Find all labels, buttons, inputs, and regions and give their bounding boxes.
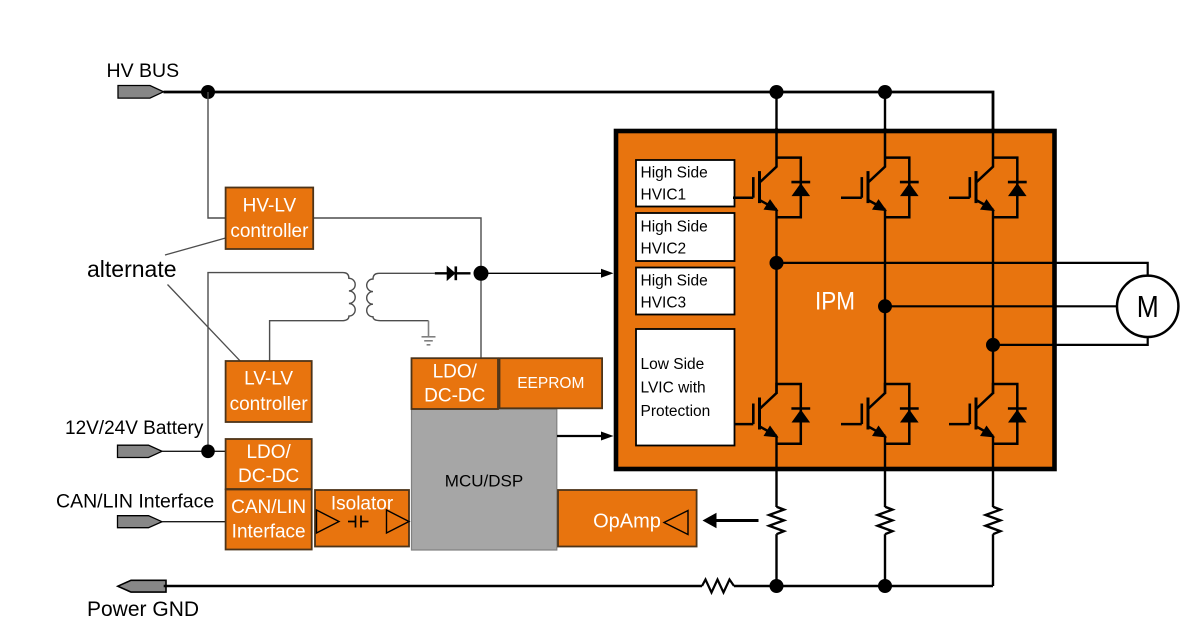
transistor Q2 IGBT [841,128,887,211]
wire bus drop to phase V IGBT [884,92,886,168]
block LDO/DC-DC logic side [412,358,499,409]
block High Side HVIC3 [636,268,735,315]
svg-text:Power GND: Power GND [87,598,199,621]
wire phase W emitter down to shunt [992,436,994,507]
wire shunt R3 to ground bus [992,534,994,586]
diode D6 freewheel [993,384,1027,444]
block EEPROM [500,358,603,408]
svg-text:OpAmp: OpAmp [593,511,661,533]
svg-text:HV BUS: HV BUS [107,60,180,82]
junction node rectified DC [474,266,489,281]
resistor R2 shunt [878,507,893,534]
wire phase W midpoint vertical [992,209,994,394]
svg-text:HVIC3: HVIC3 [641,294,687,311]
wire bus drop to phase U IGBT [775,92,777,168]
wire battery input to LDO/DC-DC [162,450,226,452]
transistor Q1 IGBT [733,128,779,211]
junction node ground shunt U [770,579,784,593]
wire battery riser to transformer primary [208,273,343,452]
wire HV BUS top rail [164,92,994,167]
wire arrow MCU to IPM [557,435,601,437]
wire ground bus [164,585,702,588]
wire phase V midpoint vertical [884,209,886,394]
svg-text:DC-DC: DC-DC [424,386,485,407]
block LV-LV controller [226,361,312,422]
svg-text:Low Side: Low Side [641,356,705,373]
wire phase U output to motor [777,263,1148,275]
svg-text:EEPROM: EEPROM [517,375,584,392]
opamp triangle symbol [664,511,688,535]
junction node on HV BUS at x=208 [201,85,215,99]
svg-text:DC-DC: DC-DC [238,466,299,487]
svg-text:CAN/LIN: CAN/LIN [231,497,306,518]
junction node ground shunt V [878,579,892,593]
callout line alternate to LV-LV controller [168,285,241,361]
wire phase U emitter down to shunt [775,436,777,507]
block Isolator [315,490,409,547]
transformer T1 secondary winding [367,273,435,320]
svg-text:MCU/DSP: MCU/DSP [445,472,523,491]
transformer T1 primary winding [270,273,356,361]
svg-text:High Side: High Side [641,218,708,235]
svg-text:HV-LV: HV-LV [243,195,297,216]
junction node HV BUS phase V [878,85,892,99]
svg-text:High Side: High Side [641,272,708,289]
svg-text:alternate: alternate [87,256,177,282]
block LDO/DC-DC battery side [226,439,312,489]
diode D4 freewheel [777,384,811,444]
diode D2 freewheel [885,158,919,218]
diode D7 rectifier [435,266,471,280]
diode D1 freewheel [777,158,811,218]
transistor Q3 IGBT [949,128,995,211]
wire shunt R2 to ground bus [884,534,886,586]
wire phase W output to motor [993,337,1148,345]
svg-text:controller: controller [230,394,309,415]
output terminal arrow Power GND [118,580,166,592]
svg-text:Interface: Interface [232,522,306,543]
svg-text:LDO/: LDO/ [246,442,291,463]
diode D5 freewheel [885,384,919,444]
wire arrow from DC node into IPM gate supply [481,272,601,274]
wire phase U midpoint vertical [775,209,777,394]
junction node phase W [986,338,1000,352]
diode D3 freewheel [993,158,1027,218]
wire ground bus right section [734,585,993,588]
svg-text:M: M [1137,289,1159,324]
junction node phase V [878,299,892,313]
transistor Q4 IGBT [734,383,779,438]
isolator capacitive barrier symbol [348,516,369,528]
block OpAmp [558,490,697,547]
svg-text:High Side: High Side [641,165,708,182]
svg-text:CAN/LIN Interface: CAN/LIN Interface [56,491,214,513]
junction node phase U [770,256,784,270]
block Low Side LVIC with Protection [636,329,735,446]
block CAN/LIN Interface [226,490,312,550]
isolator buffer triangle right [387,510,410,533]
transistor Q5 IGBT [841,383,887,438]
block High Side HVIC1 [636,160,735,207]
svg-text:controller: controller [230,221,309,242]
input terminal arrow CAN/LIN [118,516,163,528]
svg-text:HVIC1: HVIC1 [641,187,687,204]
svg-text:IPM: IPM [815,288,855,316]
wire CAN/LIN input to interface box [162,521,226,523]
svg-text:HVIC2: HVIC2 [641,240,687,257]
resistor R3 shunt [986,507,1001,534]
junction node battery [201,445,215,459]
wire shunt R1 to ground bus [775,534,777,586]
input terminal arrow HV BUS [118,86,164,99]
wire phase V output to motor [885,305,1117,307]
wire rectified DC node vertical to LDO/DC-DC [480,273,482,358]
block HV-LV controller [226,188,314,250]
wire HV bus tap down to HV-LV controller [208,92,226,218]
block MCU/DSP [412,409,557,550]
svg-text:Isolator: Isolator [331,494,394,515]
input terminal arrow 12V/24V Battery [118,445,163,457]
motor M [1117,276,1178,337]
resistor R4 on ground return [702,580,734,593]
wire arrow shunt sense to OpAmp [715,519,759,522]
block High Side HVIC2 [636,213,735,261]
svg-text:LDO/: LDO/ [433,362,478,383]
transistor Q6 IGBT [949,383,995,438]
svg-text:Protection: Protection [641,403,711,420]
svg-text:LVIC with: LVIC with [641,380,706,397]
block IPM package [616,131,1055,469]
svg-text:LV-LV: LV-LV [244,369,293,390]
junction node HV BUS phase U [770,85,784,99]
wire phase V emitter down to shunt [884,436,886,507]
svg-text:12V/24V Battery: 12V/24V Battery [65,418,204,439]
wire HV-LV controller output to rectifier node [313,218,481,273]
isolator buffer triangle left [317,510,340,533]
resistor R1 shunt [769,507,784,534]
callout line alternate to HV-LV controller [165,238,226,255]
ground symbol on transformer secondary [422,321,436,345]
